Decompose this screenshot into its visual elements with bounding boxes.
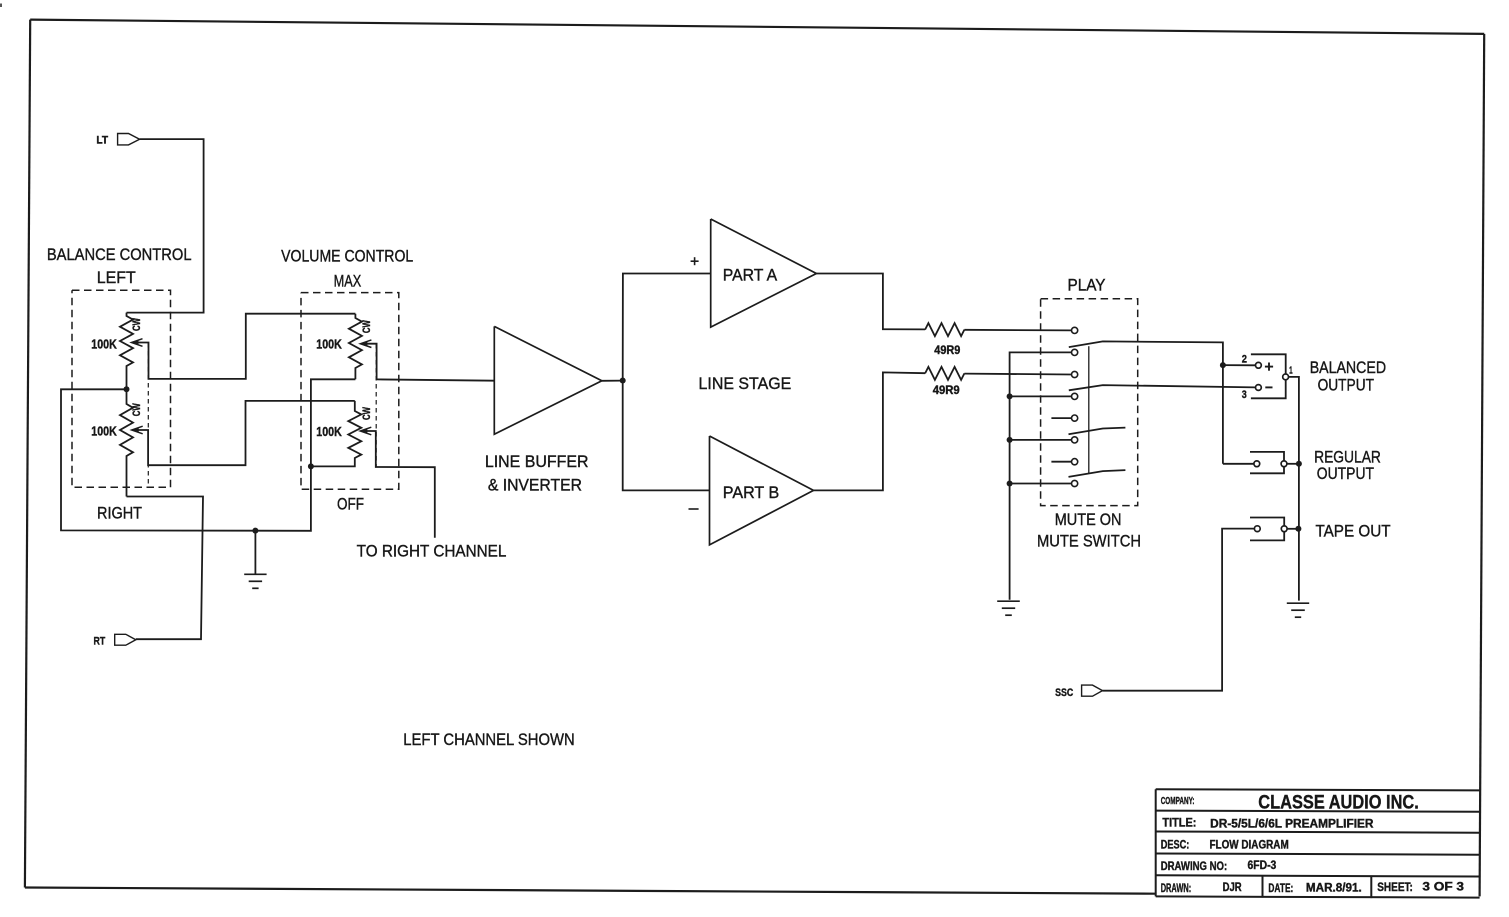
wire buffer output <box>602 380 623 382</box>
svg-text:TITLE:: TITLE: <box>1162 817 1196 829</box>
node ground junction <box>252 528 258 534</box>
wire part B output to resistor R2 <box>814 372 926 490</box>
op-amp part A triangle <box>711 219 817 327</box>
node volume bottom junction <box>308 463 314 469</box>
switch arm rows5-6 <box>1069 428 1126 435</box>
node tape out junction <box>1295 526 1301 532</box>
wire volume upper wiper to line buffer <box>362 344 494 381</box>
wire balance node to ground bus and volume bottoms <box>61 379 355 531</box>
svg-text:FLOW DIAGRAM: FLOW DIAGRAM <box>1210 839 1289 851</box>
svg-text:DESC:: DESC: <box>1161 839 1190 851</box>
scan speck <box>0 4 2 8</box>
wire tape right circle to rail <box>1287 528 1298 530</box>
svg-text:TAPE OUT: TAPE OUT <box>1315 521 1390 540</box>
wire pin1 to ground rail <box>1288 377 1299 601</box>
balanced output pin3 circle <box>1256 385 1262 391</box>
op-amp line buffer triangle <box>494 326 602 434</box>
svg-text:LEFT: LEFT <box>97 268 136 287</box>
wire part A output to resistor R1 <box>816 274 925 330</box>
wire stub row5 <box>1051 417 1071 419</box>
node buffer output junction <box>620 378 626 384</box>
svg-text:SSC: SSC <box>1055 687 1073 699</box>
svg-text:3: 3 <box>1242 389 1247 401</box>
svg-text:PART B: PART B <box>723 483 779 502</box>
wire LT to balance pot top <box>127 139 204 313</box>
op-amp part B triangle <box>710 436 814 545</box>
wire balance upper wiper to volume upper top <box>134 314 355 379</box>
svg-text:3 OF 3: 3 OF 3 <box>1422 881 1464 893</box>
svg-text:MUTE ON: MUTE ON <box>1055 510 1122 529</box>
potentiometer volume upper 100K <box>349 314 362 380</box>
svg-text:49R9: 49R9 <box>933 385 960 397</box>
drawing frame left border <box>25 20 30 888</box>
potentiometer balance upper 100K <box>120 313 133 390</box>
wire volume lower wiper to right channel <box>362 431 435 538</box>
svg-text:BALANCED: BALANCED <box>1310 358 1386 377</box>
dashed gang line volume pots <box>375 344 377 467</box>
switch arm rows7-8 <box>1069 470 1126 477</box>
volume control dashed box <box>301 293 399 490</box>
svg-text:SHEET:: SHEET: <box>1377 882 1413 894</box>
svg-text:OFF: OFF <box>337 495 364 514</box>
svg-text:100K: 100K <box>91 424 117 439</box>
wire R2 to mute switch row3 <box>964 373 1071 376</box>
switch contact circle row1 <box>1072 327 1078 333</box>
svg-text:RIGHT: RIGHT <box>97 504 142 523</box>
node bus row8 <box>1007 481 1013 487</box>
drawing frame bottom border <box>25 888 1156 894</box>
plus sign balanced <box>1265 366 1273 368</box>
svg-text:DRAWING NO:: DRAWING NO: <box>1161 861 1228 873</box>
balance control dashed box <box>72 290 171 487</box>
ground symbol left <box>244 573 266 575</box>
ground symbol mute bus <box>997 600 1020 602</box>
wire SSC to tape out left pin <box>1103 529 1255 691</box>
switch contact circle row8 <box>1072 480 1078 486</box>
switch contact circle row2 <box>1072 349 1078 355</box>
node regular output junction <box>1296 461 1302 467</box>
potentiometer balance lower 100K <box>120 389 133 496</box>
title block grid <box>1156 789 1480 790</box>
node balanced pin2 junction <box>1220 362 1226 368</box>
wire buffer to part B input <box>623 381 710 491</box>
node bus row4 <box>1007 393 1013 399</box>
resistor R2 49R9 <box>925 367 964 380</box>
svg-text:6FD-3: 6FD-3 <box>1248 860 1277 872</box>
svg-text:OUTPUT: OUTPUT <box>1317 464 1374 483</box>
tape out right circle <box>1281 526 1287 532</box>
svg-text:COMPANY:: COMPANY: <box>1161 796 1195 807</box>
switch contact circle row3 <box>1072 371 1078 377</box>
wire regular right circle to rail <box>1287 463 1299 465</box>
resistor R1 49R9 <box>925 323 964 336</box>
svg-text:PART A: PART A <box>723 265 778 284</box>
balanced bracket bottom <box>1251 380 1286 399</box>
svg-text:DRAWN:: DRAWN: <box>1161 883 1192 895</box>
tape bracket bottom <box>1250 532 1284 541</box>
wiper arrow balance upper <box>132 339 143 347</box>
node bus row6 <box>1007 437 1013 443</box>
switch contact circle row4 <box>1072 393 1078 399</box>
wire balance lower wiper to volume lower top <box>134 401 355 465</box>
svg-text:CLASSE AUDIO INC.: CLASSE AUDIO INC. <box>1258 791 1419 813</box>
wire stub row7 <box>1051 461 1071 463</box>
svg-text:MAR.8/91.: MAR.8/91. <box>1306 882 1362 894</box>
input connector SSC <box>1082 685 1103 696</box>
svg-text:MAX: MAX <box>334 272 362 291</box>
svg-text:CW: CW <box>361 320 373 333</box>
svg-text:1: 1 <box>1289 366 1293 377</box>
svg-text:MUTE SWITCH: MUTE SWITCH <box>1037 532 1141 551</box>
svg-text:CW: CW <box>131 318 143 331</box>
svg-text:& INVERTER: & INVERTER <box>488 475 582 494</box>
wire bus to row6 <box>1010 439 1072 441</box>
svg-text:100K: 100K <box>316 337 342 352</box>
svg-text:100K: 100K <box>316 424 342 439</box>
node balance center junction <box>124 386 130 392</box>
svg-text:LT: LT <box>96 135 108 147</box>
svg-text:RT: RT <box>94 635 106 647</box>
svg-text:TO RIGHT CHANNEL: TO RIGHT CHANNEL <box>357 542 507 561</box>
switch arm rows3-4 wire to balanced pin3 <box>1069 385 1256 390</box>
svg-text:OUTPUT: OUTPUT <box>1318 375 1374 394</box>
wire balance lower bottom to RT <box>127 497 204 640</box>
regular output left circle <box>1254 461 1260 467</box>
minus sign part B input <box>689 508 699 510</box>
svg-text:DATE:: DATE: <box>1268 883 1293 895</box>
svg-text:LINE BUFFER: LINE BUFFER <box>485 452 589 471</box>
wiper arrow balance lower <box>132 426 143 434</box>
svg-text:PLAY: PLAY <box>1068 276 1106 295</box>
ground symbol output rail <box>1287 602 1309 604</box>
drawing frame top border <box>30 20 1484 34</box>
svg-text:100K: 100K <box>91 336 117 351</box>
wire junction bottom to regular output pin <box>1223 463 1254 465</box>
switch arm rows1-2 wire to balanced pin2 <box>1069 341 1223 463</box>
svg-text:CW: CW <box>361 407 373 420</box>
wire ground bus row2 <box>1010 352 1072 599</box>
plus sign part A input <box>691 260 699 262</box>
svg-text:BALANCE CONTROL: BALANCE CONTROL <box>47 245 192 264</box>
svg-text:2: 2 <box>1242 353 1247 365</box>
switch contact circle row6 <box>1072 437 1078 443</box>
tape bracket top <box>1250 518 1284 526</box>
tape out left circle <box>1254 526 1260 532</box>
wire R1 to mute switch row1 <box>964 329 1071 332</box>
svg-text:VOLUME CONTROL: VOLUME CONTROL <box>281 247 413 266</box>
wire bus to row8 <box>1010 483 1072 485</box>
wiper arrow volume lower <box>360 427 371 435</box>
svg-text:CW: CW <box>131 403 143 416</box>
svg-text:LINE STAGE: LINE STAGE <box>699 374 792 393</box>
wire junction to pin2 circle <box>1223 364 1256 366</box>
wire buffer to part A input <box>623 274 711 381</box>
potentiometer volume lower 100K <box>311 401 361 467</box>
wire bus to row4 <box>1010 395 1072 397</box>
minus sign balanced <box>1265 386 1272 388</box>
wire ground stem <box>254 531 256 574</box>
svg-text:DR-5/5L/6/6L PREAMPLIFIER: DR-5/5L/6/6L PREAMPLIFIER <box>1210 818 1374 830</box>
svg-text:LEFT CHANNEL SHOWN: LEFT CHANNEL SHOWN <box>403 730 574 749</box>
svg-text:49R9: 49R9 <box>934 345 960 357</box>
mute switch dashed box <box>1041 299 1138 506</box>
switch contact circle row7 <box>1072 459 1078 465</box>
input connector RT <box>115 634 136 645</box>
regular bracket bottom <box>1250 467 1284 474</box>
svg-text:DJR: DJR <box>1223 882 1243 894</box>
wiper arrow volume upper <box>360 340 371 348</box>
balanced output pin1 circle <box>1283 374 1289 380</box>
regular bracket top <box>1250 452 1284 461</box>
regular output right circle <box>1281 461 1287 467</box>
dashed gang line balance pots <box>147 343 149 487</box>
balanced bracket top <box>1251 354 1286 374</box>
drawing frame right border <box>1480 34 1485 897</box>
switch contact circle row5 <box>1072 415 1078 421</box>
switch common bar <box>1088 346 1090 473</box>
balanced output pin2 circle <box>1256 362 1262 368</box>
input connector LT <box>118 134 140 145</box>
